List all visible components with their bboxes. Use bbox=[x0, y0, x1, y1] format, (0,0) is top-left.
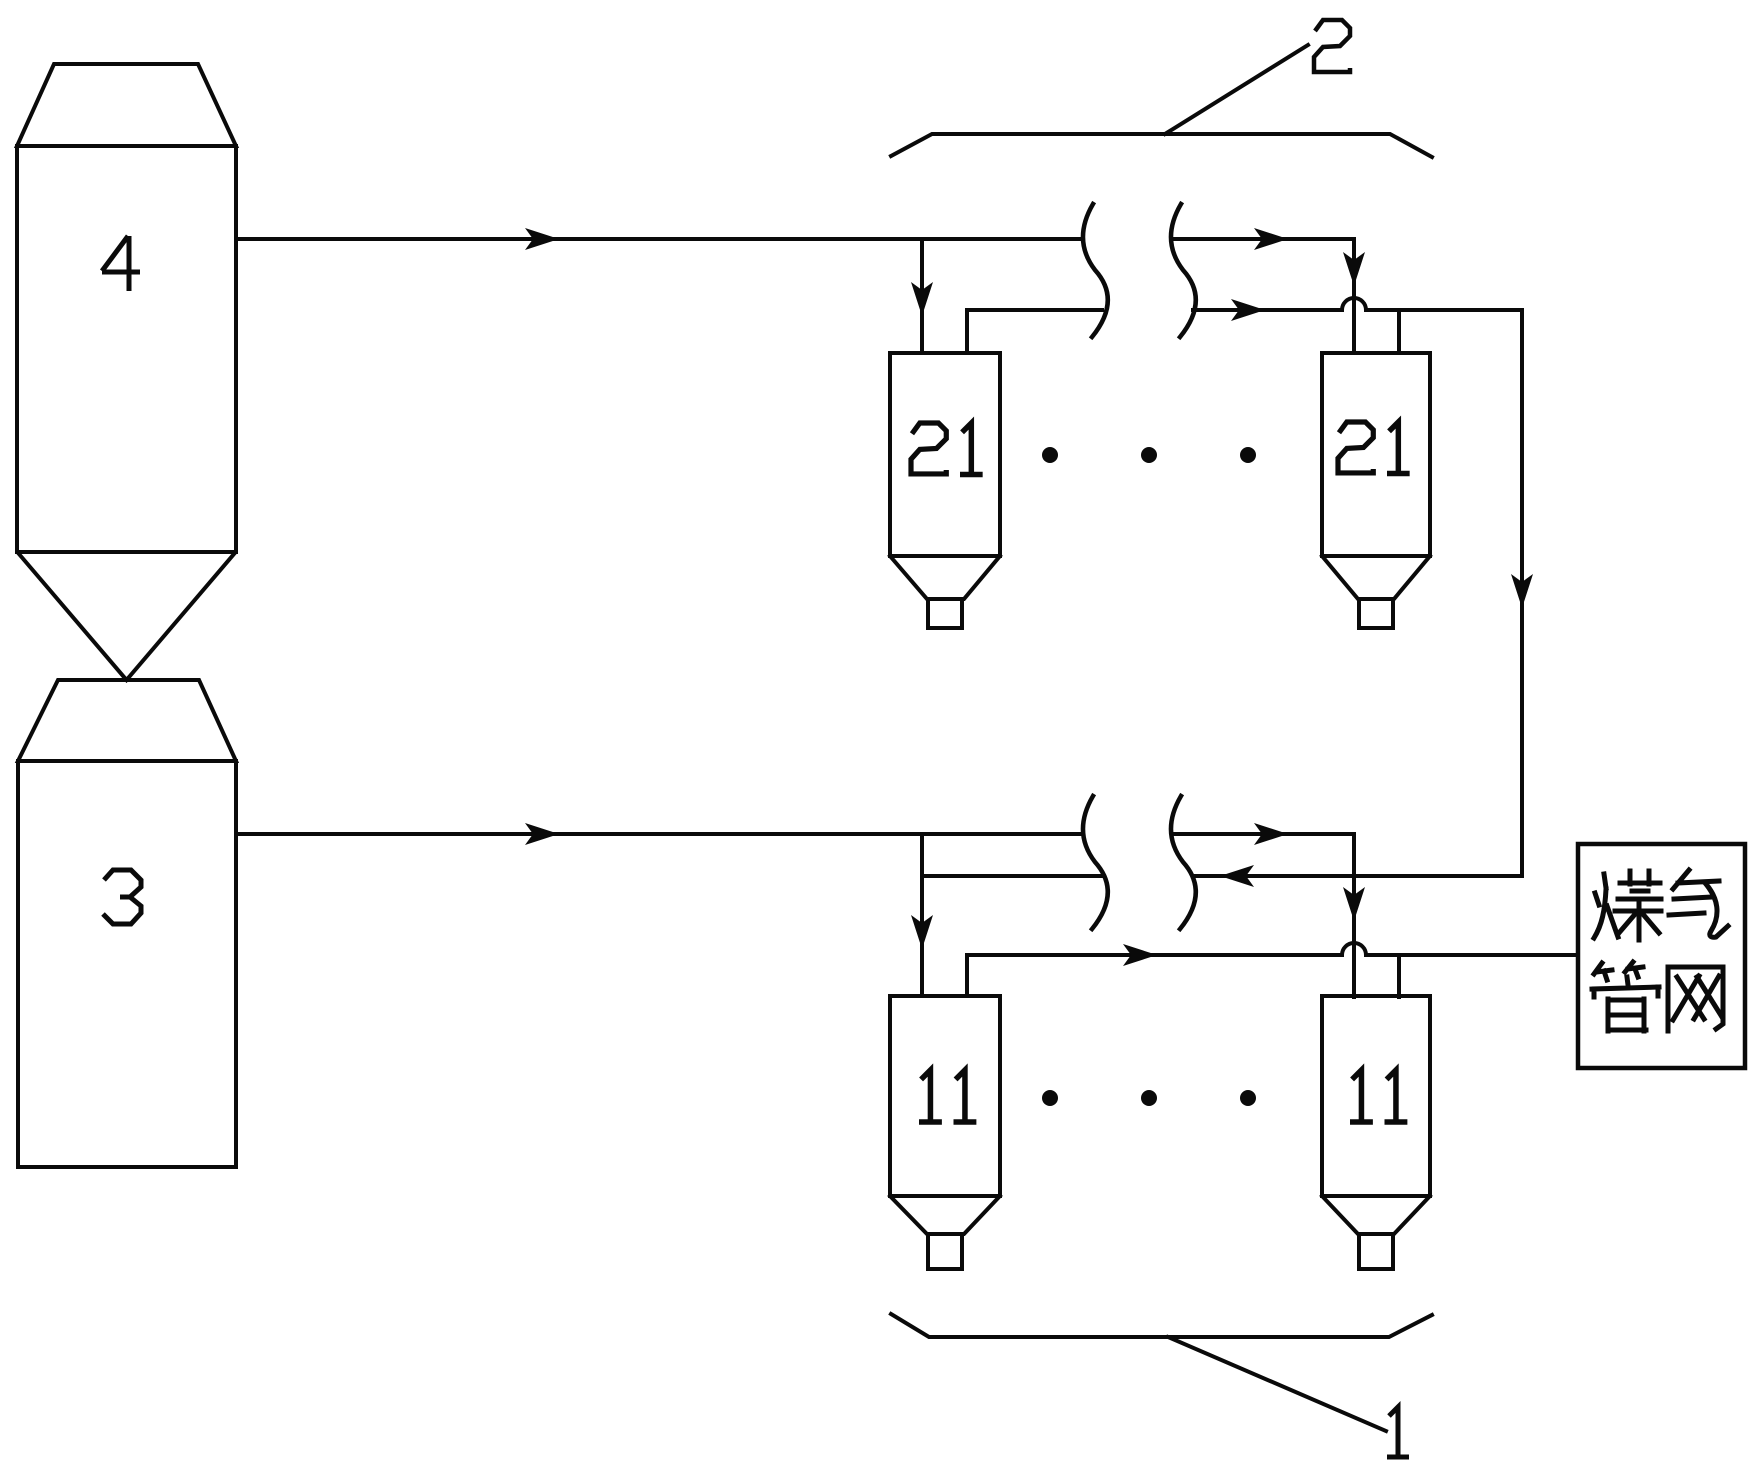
adsorber 21b cone bbox=[1322, 556, 1430, 599]
arrow right on H1b bbox=[525, 823, 559, 845]
ellipsis dot 1 top bbox=[1042, 447, 1058, 463]
wire drop to adsorber 11b bbox=[1352, 834, 1356, 997]
wire H3b to gas network with hop bbox=[967, 943, 1578, 955]
arrow down into 21a bbox=[911, 282, 933, 316]
label 21 in adsorber 21b bbox=[1338, 422, 1410, 474]
group 1 bracket bbox=[891, 1314, 1432, 1337]
group 1 leader line bbox=[1168, 1337, 1386, 1431]
adsorber 11b nozzle bbox=[1359, 1234, 1393, 1269]
adsorber 11a body bbox=[890, 996, 1000, 1196]
group 2 bracket bbox=[891, 134, 1432, 157]
label 21 in adsorber 21a bbox=[911, 423, 983, 475]
wire stub 21a second pipe bbox=[965, 310, 969, 353]
wire stub 21b second pipe bbox=[1397, 310, 1401, 353]
adsorber 21b body bbox=[1322, 353, 1430, 556]
wire H2 left segment bbox=[967, 308, 1102, 312]
label 2 callout bbox=[1314, 20, 1350, 72]
adsorber 11a cone bbox=[890, 1196, 1000, 1234]
label 4 bbox=[102, 236, 140, 291]
hanzi MEI coal fire radical bbox=[1594, 874, 1618, 938]
vessel 3 top trapezoid bbox=[18, 680, 236, 761]
ellipsis dot 2 top bbox=[1141, 447, 1157, 463]
adsorber 11a nozzle bbox=[928, 1234, 962, 1269]
adsorber 21a nozzle bbox=[928, 599, 962, 628]
ellipsis dot 2 bottom bbox=[1141, 1090, 1157, 1106]
wire vertical interconnect to lower group bbox=[1520, 310, 1524, 876]
arrow right on H2 bbox=[1231, 299, 1265, 321]
adsorber 21a body bbox=[890, 353, 1000, 556]
adsorber 21a cone bbox=[890, 556, 1000, 599]
wire H2 right segment with hop over drop bbox=[1193, 298, 1522, 310]
break mark S2 top bbox=[1171, 204, 1196, 337]
ellipsis dot 3 top bbox=[1240, 447, 1256, 463]
arrow down into 11a bbox=[911, 915, 933, 949]
break mark S1 bottom bbox=[1083, 796, 1108, 929]
adsorber 11b body bbox=[1322, 996, 1430, 1196]
arrow right on H1 near 21b bbox=[1254, 228, 1288, 250]
gas network box bbox=[1578, 844, 1745, 1068]
arrow right on H1b near 11b bbox=[1254, 823, 1288, 845]
arrow down into 21b bbox=[1343, 252, 1365, 286]
hanzi MEI coal right part bbox=[1615, 871, 1661, 940]
break mark S1 top bbox=[1083, 204, 1108, 337]
vessel 4 body bbox=[17, 146, 236, 552]
wire drop to adsorber 21b bbox=[1352, 239, 1356, 353]
hanzi WANG net crosses bbox=[1673, 976, 1722, 1020]
wire H1 from vessel 4 left segment bbox=[236, 237, 1082, 241]
wire H2b left segment bbox=[922, 874, 1104, 878]
wire H1b right segment bbox=[1174, 832, 1354, 836]
arrow down into 11b bbox=[1343, 887, 1365, 921]
hanzi GUAN pipe bamboo radical bbox=[1594, 962, 1643, 980]
group 2 leader line bbox=[1165, 45, 1308, 134]
arrow right on H1 bbox=[525, 228, 559, 250]
hanzi QI gas bbox=[1669, 870, 1728, 937]
arrow left on H2b bbox=[1220, 865, 1254, 887]
adsorber 21b nozzle bbox=[1359, 599, 1393, 628]
arrow down on interconnect bbox=[1511, 574, 1533, 608]
wire H2b right segment bbox=[1196, 874, 1522, 878]
vessel 3 body bbox=[18, 761, 236, 1167]
hanzi GUAN pipe body bbox=[1592, 977, 1659, 1031]
adsorber 11b cone bbox=[1322, 1196, 1430, 1234]
wire drop to adsorber 21a bbox=[920, 239, 924, 353]
arrow right on H3b bbox=[1123, 944, 1157, 966]
wire stub 11b second pipe bbox=[1397, 955, 1401, 997]
break mark S2 bottom bbox=[1171, 796, 1196, 929]
label 11 in adsorber 11a bbox=[919, 1070, 976, 1122]
ellipsis dot 3 bottom bbox=[1240, 1090, 1256, 1106]
wire stub 11a second pipe bbox=[965, 955, 969, 996]
label 11 in adsorber 11b bbox=[1350, 1070, 1407, 1122]
label 3 bbox=[103, 870, 141, 924]
vessel 4 bottom funnel bbox=[19, 554, 234, 680]
label 1 callout bbox=[1387, 1407, 1409, 1457]
vessel 4 top trapezoid bbox=[17, 64, 236, 146]
wire H1 right segment bbox=[1174, 237, 1354, 241]
ellipsis dot 1 bottom bbox=[1042, 1090, 1058, 1106]
wire H1b from vessel 3 left segment bbox=[236, 832, 1082, 836]
wire drop to adsorber 11a bbox=[920, 834, 924, 996]
hanzi WANG net frame bbox=[1668, 967, 1723, 1031]
